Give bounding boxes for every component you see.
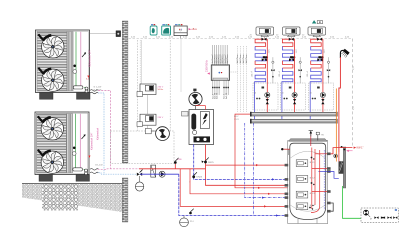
pipe row R5 (red branch low) bbox=[180, 169, 287, 207]
svg-text:HKV: HKV bbox=[234, 116, 239, 118]
svg-text:2x0,75mm: 2x0,75mm bbox=[227, 54, 229, 64]
svg-text:KW 1": KW 1" bbox=[357, 147, 364, 150]
pipe indoor return drop (blue) bbox=[194, 145, 287, 180]
svg-text:230 V: 230 V bbox=[158, 117, 164, 119]
tank flange B2 bbox=[296, 176, 315, 183]
dirt filter F1 bbox=[151, 165, 156, 177]
svg-text:Kältemittel 1/4": Kältemittel 1/4" bbox=[90, 133, 94, 150]
dashed enclosure pump group bbox=[110, 131, 174, 164]
svg-text:KFE: KFE bbox=[178, 159, 183, 161]
svg-text:Kältemittel 1/4": Kältemittel 1/4" bbox=[88, 50, 92, 67]
wire refrigerant HP2 pink bbox=[98, 168, 140, 171]
wiring center box bbox=[211, 65, 229, 80]
svg-text:35°C: 35°C bbox=[324, 48, 326, 53]
tank internal pipe bend bbox=[311, 150, 320, 213]
underfloor circuit 1 bbox=[251, 38, 275, 84]
tank sensor port bbox=[281, 148, 290, 155]
tank top cap bbox=[289, 139, 328, 142]
dashed riser line bbox=[169, 40, 171, 131]
room unit 1 bbox=[256, 27, 274, 37]
wifi mark above room unit 3 bbox=[312, 20, 317, 23]
svg-text:2x0,75mm: 2x0,75mm bbox=[246, 54, 248, 64]
svg-text:2x0,75: 2x0,75 bbox=[217, 92, 219, 99]
control wires right of box bbox=[238, 46, 247, 112]
wire labels above box (rotated) bbox=[211, 54, 229, 64]
wire refrigerant suction HP1 (blue dotted down) bbox=[98, 93, 104, 174]
flex connector HP2 bbox=[90, 169, 99, 171]
wires above box bbox=[213, 45, 228, 65]
svg-text:50 Hz: 50 Hz bbox=[158, 89, 164, 91]
tank internal blue link bbox=[319, 171, 328, 173]
arrow HP2 bbox=[88, 156, 90, 159]
pump group box 2 bbox=[280, 83, 305, 110]
svg-text:20: 20 bbox=[254, 93, 256, 95]
circulation pump P3 bbox=[189, 89, 202, 106]
fresh water station bbox=[328, 146, 346, 188]
pipe return riser (blue down) bbox=[179, 174, 287, 215]
energy meter legend box bbox=[361, 208, 398, 222]
pump P1 on return line bbox=[159, 171, 165, 177]
underfloor circuit 2 bbox=[278, 38, 302, 84]
tank safety valve bbox=[316, 132, 324, 140]
heat meter M2 bbox=[137, 114, 164, 129]
wire labels right group (rotated) bbox=[237, 54, 248, 64]
app icon (teal) bbox=[150, 24, 157, 35]
circuit 3 risers bbox=[322, 39, 324, 112]
control line to meter M1 bbox=[139, 40, 141, 84]
svg-text:100 m²: 100 m² bbox=[251, 71, 254, 78]
arrow HP1 bbox=[87, 76, 89, 79]
signal line to energy meter (green) bbox=[343, 186, 363, 218]
svg-text:DN25: DN25 bbox=[208, 162, 214, 164]
tank bottom right connector bbox=[331, 203, 334, 211]
circuit 2 risers bbox=[294, 39, 296, 112]
controller bus label bbox=[189, 28, 198, 31]
tank right ports bbox=[327, 153, 331, 213]
wall (lower section) bbox=[122, 178, 128, 222]
tank left ports bbox=[285, 164, 289, 217]
system controller bbox=[174, 24, 187, 38]
svg-text:2x0,75mm: 2x0,75mm bbox=[243, 54, 245, 64]
tank internal sensors bbox=[309, 157, 314, 210]
svg-text:230 V: 230 V bbox=[158, 87, 164, 89]
drain valve and vessel bbox=[180, 209, 194, 227]
svg-text:2x0,75: 2x0,75 bbox=[226, 92, 228, 99]
buffer tank outer frame bbox=[288, 141, 328, 224]
svg-text:Kältemittel: Kältemittel bbox=[96, 127, 100, 140]
svg-text:DN25: DN25 bbox=[197, 177, 203, 179]
shower hot pipe (red) bbox=[339, 57, 341, 152]
tank flange B1 bbox=[296, 160, 315, 167]
pipe HP return (blue horizontal) bbox=[140, 173, 179, 175]
dimension labels bbox=[131, 36, 350, 38]
ground gravel bed bbox=[22, 184, 122, 213]
svg-text:35°C: 35°C bbox=[296, 48, 298, 53]
svg-text:eBus: eBus bbox=[192, 29, 198, 31]
manifold upper bar bbox=[251, 112, 337, 116]
DHW circulation pipe (orange) bbox=[335, 89, 337, 155]
svg-text:G 1-1/4": G 1-1/4" bbox=[95, 165, 103, 167]
svg-text:100 m²: 100 m² bbox=[278, 71, 281, 78]
manifold lower bar bbox=[251, 119, 337, 123]
heat meter M1 bbox=[137, 84, 164, 114]
wire refrigerant HP2 blue bbox=[98, 173, 141, 174]
DHW outlet arrow bbox=[331, 147, 364, 154]
tank flange B4 bbox=[296, 203, 315, 210]
svg-text:20: 20 bbox=[281, 93, 283, 95]
valve V4 on return bbox=[189, 172, 203, 184]
dimension line (dashed) bbox=[129, 38, 353, 40]
tank air vent bbox=[309, 130, 313, 146]
tank internal pipes (red) bbox=[312, 148, 328, 210]
main return riser blue 1 bbox=[245, 123, 289, 198]
control line from controller bbox=[180, 39, 182, 92]
svg-text:35°C: 35°C bbox=[269, 48, 271, 53]
indoor unit (hydro box) bbox=[182, 106, 214, 145]
buffer tank body bbox=[290, 143, 326, 219]
svg-text:25 l: 25 l bbox=[190, 221, 194, 223]
room unit 3 bbox=[308, 27, 326, 37]
pump group box 3 bbox=[309, 83, 334, 110]
tank flange B3 bbox=[296, 191, 315, 198]
main supply from manifold (red) bbox=[235, 114, 289, 188]
cold water inlet arrow (pink) bbox=[346, 150, 352, 152]
pipe row R4 (red branch) bbox=[190, 169, 287, 194]
valve V3 on drop bbox=[202, 157, 215, 164]
pipe HP supply (red horizontal) bbox=[139, 168, 206, 170]
tank internal sensor tube (blue dashed) bbox=[323, 150, 325, 210]
pipe row R1 (red to tank) bbox=[206, 164, 288, 166]
room unit 2 bbox=[283, 27, 301, 37]
wall (upper section) bbox=[122, 21, 128, 163]
room boundary dashed bbox=[352, 39, 354, 146]
pump P2 (wall mounted) bbox=[145, 127, 169, 141]
pump group box 1 bbox=[253, 83, 278, 110]
cloud icon (teal) bbox=[162, 24, 171, 35]
heat pump unit HP1 bbox=[36, 30, 91, 99]
circuit 1 risers bbox=[266, 39, 268, 112]
svg-text:230V/50Hz: 230V/50Hz bbox=[206, 59, 209, 72]
heat pump unit HP2 bbox=[35, 112, 90, 181]
pipe indoor supply drop (red) bbox=[206, 145, 288, 186]
svg-text:2x0,75mm: 2x0,75mm bbox=[240, 54, 242, 64]
enclosure riser left bbox=[136, 40, 138, 131]
svg-text:G 1-1/4": G 1-1/4" bbox=[94, 87, 102, 89]
underfloor circuit 3 bbox=[306, 38, 330, 84]
shower bbox=[340, 49, 349, 58]
main return riser blue 2 bbox=[252, 123, 254, 216]
svg-text:DN25: DN25 bbox=[234, 119, 240, 121]
flex connector HP1 bbox=[90, 90, 98, 92]
svg-text:100 m²: 100 m² bbox=[306, 71, 309, 78]
svg-text:TW: TW bbox=[321, 134, 324, 136]
svg-text:2x0,75mm: 2x0,75mm bbox=[237, 54, 239, 64]
wire refrigerant liquid HP1 (pink dashed down) bbox=[98, 90, 111, 168]
outdoor temperature sensor bbox=[90, 31, 121, 37]
valve V2 on riser bbox=[174, 158, 182, 169]
shut-off valve V1 with vessel bbox=[135, 170, 143, 192]
wires below box with terminals bbox=[213, 80, 228, 95]
svg-text:20: 20 bbox=[310, 93, 312, 95]
